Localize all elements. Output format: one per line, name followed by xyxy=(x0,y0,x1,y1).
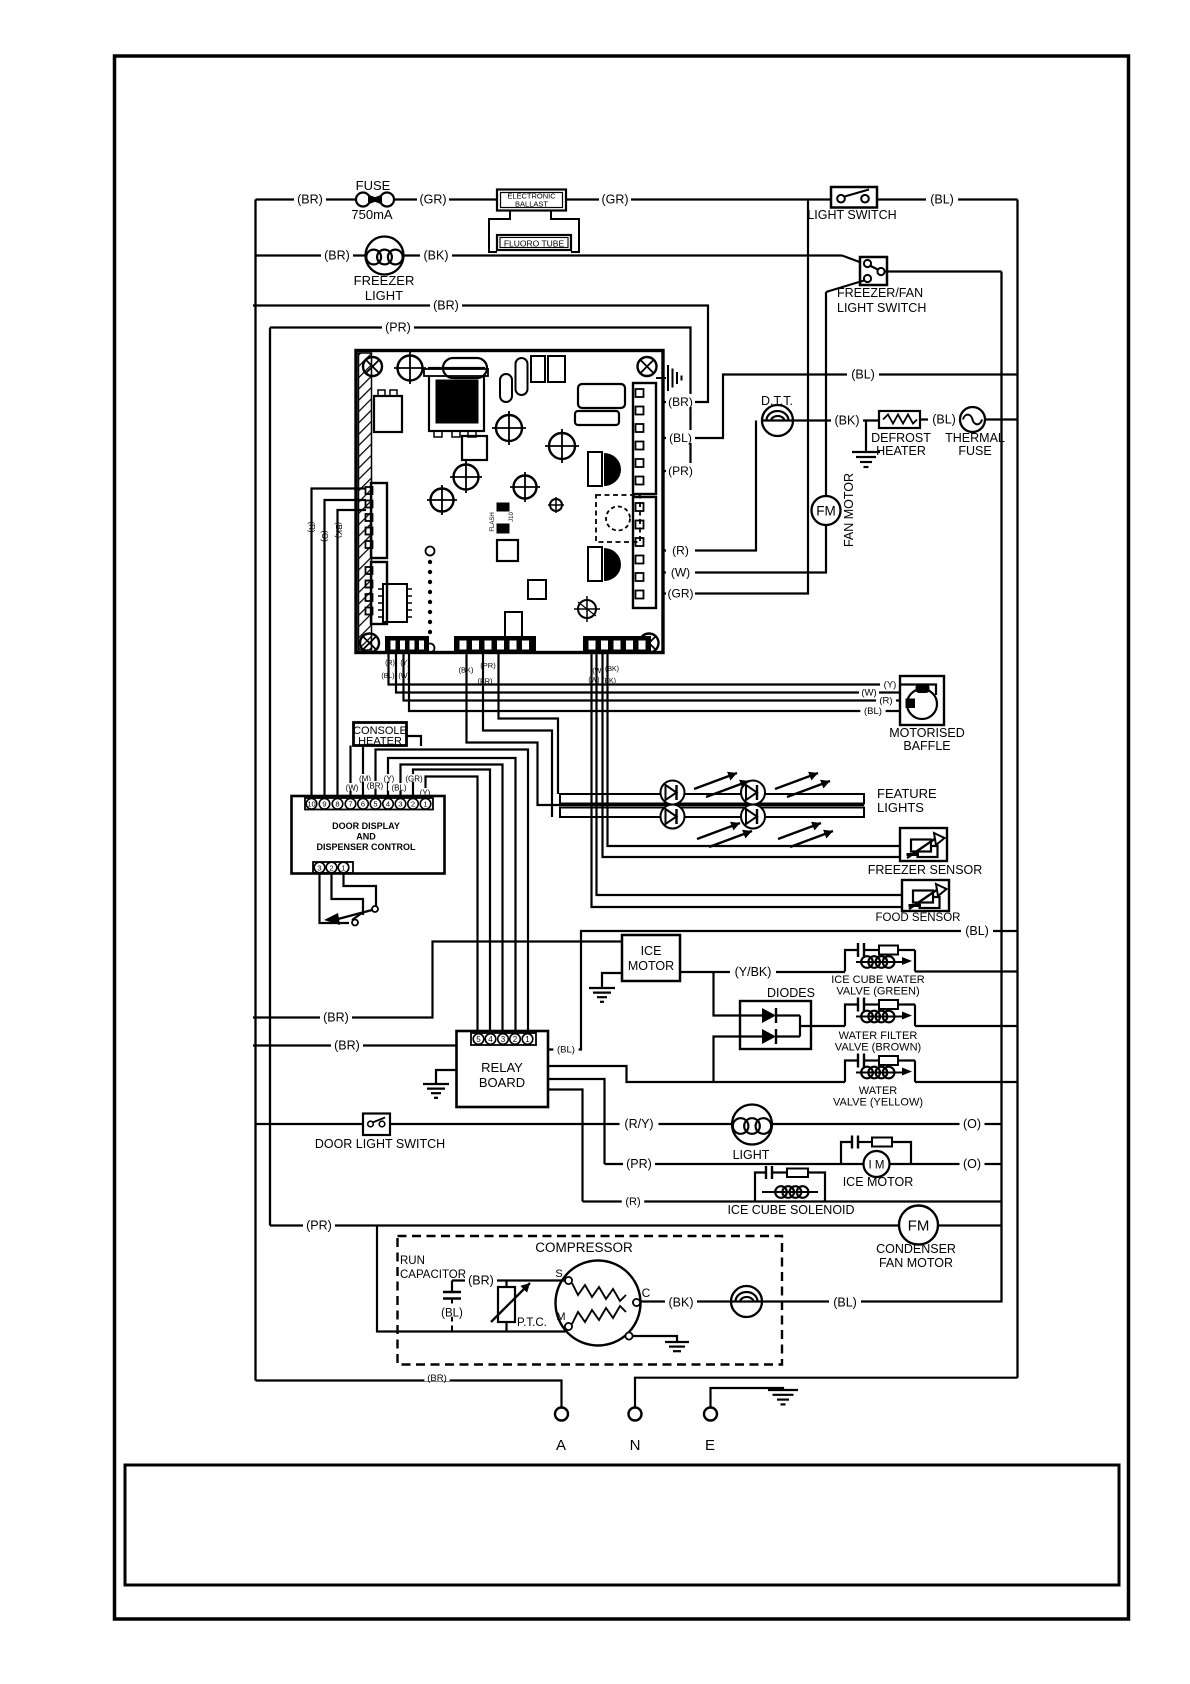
PCB right connector J1 xyxy=(633,383,656,494)
svg-text:DOOR DISPLAY: DOOR DISPLAY xyxy=(332,821,400,831)
compressor M terminal xyxy=(565,1323,572,1330)
feature light bar bottom xyxy=(560,808,864,818)
left bus wire A (BR) xyxy=(254,200,256,1381)
svg-text:(BR): (BR) xyxy=(297,193,323,207)
wire food sensor bottom xyxy=(592,653,903,907)
wire pin6 to console heater xyxy=(362,746,364,799)
svg-text:(BL): (BL) xyxy=(441,1308,463,1320)
svg-text:2: 2 xyxy=(513,1035,518,1044)
svg-text:7: 7 xyxy=(348,800,352,809)
svg-text:(BL): (BL) xyxy=(391,784,406,793)
wire pin10 (R) from PCB xyxy=(312,489,367,799)
svg-text:E: E xyxy=(705,1437,715,1454)
wire (GR) net up to top row xyxy=(663,200,808,594)
electronic ballast U-EB xyxy=(497,190,566,211)
ice cube solenoid coil xyxy=(762,1191,818,1193)
relay board xyxy=(457,1031,549,1107)
svg-text:VALVE (BROWN): VALVE (BROWN) xyxy=(835,1042,921,1054)
label (BK) xyxy=(420,248,452,260)
svg-text:(BK): (BK) xyxy=(334,522,343,538)
wire C to overload xyxy=(640,1300,731,1302)
svg-text:(W): (W) xyxy=(588,677,599,684)
compressor dashed enclosure xyxy=(398,1236,783,1365)
label (PR) pcb pin xyxy=(666,463,695,476)
wire green valve to bus xyxy=(915,970,1018,972)
svg-text:LIGHT SWITCH: LIGHT SWITCH xyxy=(807,208,896,222)
wire FM to bus 1 xyxy=(938,1224,1002,1226)
terminal N xyxy=(629,1408,642,1421)
svg-text:(BR): (BR) xyxy=(433,299,459,313)
PCB screw hole bottom-left xyxy=(360,634,379,653)
wire light to bus (O) xyxy=(772,1123,1002,1125)
svg-text:AND: AND xyxy=(356,832,376,842)
wire freezer light row y=255.5 xyxy=(256,254,366,256)
right bus wire 1 xyxy=(1000,272,1002,1303)
PCB right connector J2 xyxy=(633,497,656,608)
door display pin 9 xyxy=(319,799,330,810)
wire baffle (Y) from PCB xyxy=(389,653,901,685)
svg-text:5: 5 xyxy=(476,1035,481,1044)
labels pcb bottom connector J7 pins xyxy=(590,667,606,674)
wire baffle (W) from PCB xyxy=(396,653,900,693)
wire console heater right stub xyxy=(407,736,422,746)
wire M terminal feed xyxy=(270,1224,899,1226)
svg-text:(BR): (BR) xyxy=(468,1274,494,1288)
relay terminal 4 xyxy=(485,1034,496,1045)
door display bottom pin 2 xyxy=(326,862,337,873)
label (BL) pcb pin xyxy=(663,375,1018,439)
wire E terminal to earth xyxy=(711,1388,784,1408)
ice motor (icemaker) box xyxy=(622,935,680,981)
labels pcb bottom connector J5 pins xyxy=(382,659,398,666)
svg-text:DIODES: DIODES xyxy=(767,986,815,1000)
door display pin 2 xyxy=(408,799,419,810)
svg-text:750mA: 750mA xyxy=(351,207,393,222)
wire brown valve to bus xyxy=(915,1025,1018,1027)
wire relay output 3 to solenoid row xyxy=(548,1090,583,1202)
ice motor IM xyxy=(864,1151,890,1177)
door display and dispenser control box xyxy=(292,796,445,874)
svg-text:I M: I M xyxy=(869,1160,885,1172)
wire relay output 2 to ice motor row xyxy=(548,1079,605,1164)
wire switch to light xyxy=(390,1123,732,1125)
label (BL) mid wire xyxy=(847,367,879,379)
labels pcb bottom connector J6 pins xyxy=(456,665,477,672)
svg-text:MOTOR: MOTOR xyxy=(628,959,674,973)
svg-text:LIGHTS: LIGHTS xyxy=(877,800,924,815)
PCB jumper J10 FLASH xyxy=(497,503,509,511)
PCB transformer T1 xyxy=(429,368,484,431)
PCB relay K1 xyxy=(374,396,402,432)
wire top (BR) bus row y=199.5 xyxy=(256,198,357,200)
PCB pill component row top xyxy=(443,358,487,378)
svg-text:LIGHT: LIGHT xyxy=(365,288,403,303)
svg-text:FREEZER SENSOR: FREEZER SENSOR xyxy=(868,863,983,877)
wire door light switch row xyxy=(256,1123,364,1125)
svg-text:(PR): (PR) xyxy=(306,1219,332,1233)
svg-text:(Y/BK): (Y/BK) xyxy=(735,965,772,979)
label (BL) xyxy=(926,192,958,204)
PCB screw hole bottom-right xyxy=(640,634,659,653)
PCB bottom connector J6 xyxy=(455,637,535,653)
wire solenoid row (R) xyxy=(583,1200,1002,1202)
svg-text:(O): (O) xyxy=(320,530,329,542)
svg-text:FLASH: FLASH xyxy=(490,512,496,531)
svg-text:BOARD: BOARD xyxy=(479,1075,525,1090)
svg-text:FEATURE: FEATURE xyxy=(877,786,937,801)
svg-text:(R): (R) xyxy=(672,544,689,558)
feature LED 3 xyxy=(661,805,685,829)
PCB screw hole top-left xyxy=(363,357,382,376)
PCB dashed component xyxy=(596,495,640,542)
svg-text:VALVE (YELLOW): VALVE (YELLOW) xyxy=(833,1097,923,1109)
bottom note box xyxy=(125,1465,1119,1585)
wire pin2 (GR) to relay xyxy=(413,770,490,1034)
door display pin 5 xyxy=(370,799,381,810)
svg-text:FUSE: FUSE xyxy=(356,178,391,193)
door display pin 6 xyxy=(358,799,369,810)
PCB cap C3 plus circle xyxy=(549,433,575,459)
wire freezer sensor bottom xyxy=(603,653,901,857)
svg-text:A: A xyxy=(556,1437,566,1454)
light switch S1 xyxy=(831,187,877,208)
svg-text:(BL): (BL) xyxy=(864,706,882,717)
svg-text:THERMAL: THERMAL xyxy=(945,431,1005,445)
compressor overload protector xyxy=(731,1286,762,1317)
feature light rays xyxy=(694,773,737,789)
PCB cap C4 plus circle xyxy=(454,465,479,490)
water filter valve brown xyxy=(845,1005,858,1027)
page frame xyxy=(115,56,1129,1619)
PCB rounded module A xyxy=(578,384,625,408)
feature LED 4 xyxy=(741,805,765,829)
PCB left connector J3 xyxy=(371,483,387,558)
right bus wire 2 (BL/N) xyxy=(1016,200,1018,1378)
label (GR) xyxy=(599,192,631,204)
fuse F1 750mA xyxy=(356,193,370,207)
PCB transistor Q1 xyxy=(588,452,602,486)
terminal E xyxy=(704,1408,717,1421)
svg-text:FAN MOTOR: FAN MOTOR xyxy=(842,473,856,547)
ground earth symbol xyxy=(768,1389,798,1391)
wire relay (BL) up to bus xyxy=(548,931,1018,1050)
thermal fuse TF1 xyxy=(960,407,985,432)
fluoro tube xyxy=(497,235,571,250)
main control PCB board xyxy=(356,351,663,653)
wire capacitor to S terminal xyxy=(452,1279,565,1281)
PCB pad dot column xyxy=(426,547,435,556)
label (GR) xyxy=(417,192,449,204)
svg-text:MOTORISED: MOTORISED xyxy=(889,726,964,740)
svg-text:(GR): (GR) xyxy=(419,193,446,207)
wire pin4 (Y) to relay xyxy=(388,758,516,1033)
svg-text:(BK): (BK) xyxy=(424,249,449,263)
relay terminal 1 xyxy=(522,1034,533,1045)
wire (R) net to DTT xyxy=(663,421,756,551)
svg-text:(W): (W) xyxy=(861,688,876,699)
svg-text:COMPRESSOR: COMPRESSOR xyxy=(535,1240,633,1255)
svg-text:(R/Y): (R/Y) xyxy=(624,1117,653,1131)
door display pin 10 xyxy=(306,799,317,810)
PCB transistor Q2 xyxy=(588,547,602,581)
wire pcb to feature bottom bar xyxy=(483,653,552,817)
ground ice motor xyxy=(602,973,622,988)
svg-text:ICE MOTOR: ICE MOTOR xyxy=(843,1175,914,1189)
svg-text:D.T.T.: D.T.T. xyxy=(761,394,793,408)
wire pin1 (Y) to relay xyxy=(426,777,478,1034)
svg-text:ICE: ICE xyxy=(641,944,662,958)
svg-text:S: S xyxy=(555,1268,562,1280)
wire pcb to feature top bar xyxy=(499,653,559,794)
compressor C terminal xyxy=(633,1299,640,1306)
wire diode feed 1 xyxy=(714,972,741,1016)
svg-text:(BL): (BL) xyxy=(851,368,875,382)
wire thermal fuse to bus xyxy=(985,418,1018,420)
wire (BR) to relay board xyxy=(253,1044,457,1046)
wire freezer sensor top xyxy=(608,653,901,846)
svg-text:WATER: WATER xyxy=(859,1085,898,1097)
svg-text:FM: FM xyxy=(908,1218,930,1235)
freezer sensor xyxy=(900,828,947,861)
svg-text:4: 4 xyxy=(488,1035,493,1044)
wire (PR) to PCB y=327.5 xyxy=(270,328,691,472)
door display pin 8 xyxy=(332,799,343,810)
svg-text:1: 1 xyxy=(525,1035,530,1044)
svg-text:(BL): (BL) xyxy=(557,1045,575,1056)
svg-text:(GR): (GR) xyxy=(668,587,694,601)
dispenser paddle switch xyxy=(372,906,378,912)
compressor start winding xyxy=(572,1283,626,1301)
wire pin7 to console heater xyxy=(349,746,351,799)
compressor case ground pin xyxy=(625,1332,632,1339)
svg-text:(BL): (BL) xyxy=(669,431,692,445)
svg-text:(O): (O) xyxy=(963,1157,981,1171)
svg-text:M: M xyxy=(556,1311,565,1323)
svg-text:(BL): (BL) xyxy=(965,924,989,938)
PCB bottom connector J5 xyxy=(386,637,428,653)
svg-text:(Y): (Y) xyxy=(384,775,395,784)
svg-text:CAPACITOR: CAPACITOR xyxy=(400,1269,466,1281)
svg-text:10: 10 xyxy=(307,800,315,809)
svg-text:J10: J10 xyxy=(509,512,515,522)
svg-text:2: 2 xyxy=(411,800,415,809)
wire (W) net to fan motor xyxy=(663,292,826,573)
svg-text:BALLAST: BALLAST xyxy=(515,200,548,209)
PTC resistor xyxy=(498,1287,515,1322)
svg-text:4: 4 xyxy=(386,800,390,809)
ice cube solenoid loop xyxy=(755,1173,766,1202)
wire ballast to fluoro tube brackets xyxy=(489,211,510,253)
door display bottom pin 1 xyxy=(338,862,349,873)
svg-text:(BR): (BR) xyxy=(427,1373,447,1384)
wire ice motor row (PR) xyxy=(605,1163,864,1165)
svg-text:FUSE: FUSE xyxy=(958,444,991,458)
feature light bar top xyxy=(560,794,864,804)
svg-text:FAN MOTOR: FAN MOTOR xyxy=(879,1256,953,1270)
fridge light lamp xyxy=(732,1105,772,1145)
svg-text:DEFROST: DEFROST xyxy=(871,431,931,445)
wire ice motor to green valve (Y/BK) xyxy=(680,971,845,973)
svg-text:FLUORO TUBE: FLUORO TUBE xyxy=(504,239,565,249)
motorised baffle xyxy=(900,676,944,725)
svg-text:(O): (O) xyxy=(963,1117,981,1131)
wire food sensor top xyxy=(597,653,903,895)
door light switch S3 xyxy=(363,1114,390,1136)
svg-text:9: 9 xyxy=(322,800,326,809)
PCB cap C1 plus circle xyxy=(398,356,423,381)
ground defrost heater xyxy=(865,421,867,453)
svg-text:2: 2 xyxy=(329,863,333,872)
wire baffle (BL) from PCB xyxy=(409,653,900,711)
svg-text:(BL): (BL) xyxy=(932,413,956,427)
diodes box xyxy=(740,1001,811,1049)
svg-text:(R): (R) xyxy=(879,696,892,707)
wire (BR) to PCB y=305.5 xyxy=(253,306,708,403)
wire DTT to defrost heater xyxy=(762,419,879,421)
defrost heater R-DH xyxy=(879,411,920,428)
svg-text:(GR): (GR) xyxy=(405,775,423,784)
ice cube water valve green xyxy=(845,950,858,972)
defrost termination thermostat D.T.T. xyxy=(762,405,793,436)
svg-text:(BR): (BR) xyxy=(334,1039,360,1053)
PCB cap C2 plus circle xyxy=(496,415,522,441)
wire overload to bus (BL) xyxy=(731,1300,1002,1302)
PCB rect U6 xyxy=(528,580,546,599)
PCB left connector J4 xyxy=(371,562,387,624)
run capacitor xyxy=(451,1281,453,1293)
PCB screw hole top-right xyxy=(638,357,657,376)
svg-text:1: 1 xyxy=(423,800,427,809)
ice motor IM capacitor loop xyxy=(841,1142,852,1164)
PCB cap C6 plus circle xyxy=(514,476,537,499)
svg-text:(BL): (BL) xyxy=(833,1296,857,1310)
svg-text:5: 5 xyxy=(373,800,377,809)
svg-text:(BL): (BL) xyxy=(930,193,954,207)
relay terminal 2 xyxy=(510,1034,521,1045)
PCB bottom connector J7 xyxy=(584,637,650,653)
svg-text:(W): (W) xyxy=(671,566,690,580)
compressor run winding xyxy=(572,1306,626,1324)
svg-text:3: 3 xyxy=(398,800,402,809)
wire relay output 1 to water valve yellow xyxy=(548,1066,845,1082)
svg-text:WATER FILTER: WATER FILTER xyxy=(839,1030,918,1042)
wire dispenser switch loop xyxy=(320,873,350,923)
door display pin 7 xyxy=(345,799,356,810)
svg-text:(BR): (BR) xyxy=(668,395,693,409)
svg-text:CONDENSER: CONDENSER xyxy=(876,1242,956,1256)
svg-text:FOOD SENSOR: FOOD SENSOR xyxy=(876,912,961,924)
wire pin8 (BK) from PCB xyxy=(338,510,367,798)
terminal A xyxy=(555,1408,568,1421)
wire IM to bus (O) xyxy=(890,1163,1002,1165)
wire pcb to feature mid line xyxy=(467,653,865,805)
svg-text:DISPENSER CONTROL: DISPENSER CONTROL xyxy=(316,842,416,852)
relay terminal 5 xyxy=(473,1034,484,1045)
PCB rect U5 xyxy=(505,612,522,638)
svg-text:LIGHT: LIGHT xyxy=(733,1148,770,1162)
feature LED 1 xyxy=(661,781,685,805)
svg-text:(W): (W) xyxy=(346,784,359,793)
wire pin3 (BL) to relay xyxy=(401,765,503,1034)
svg-text:3: 3 xyxy=(317,863,321,872)
svg-text:RUN: RUN xyxy=(400,1255,425,1267)
wire diode feed 2 xyxy=(714,1037,741,1083)
svg-text:(BR): (BR) xyxy=(323,1011,349,1025)
svg-text:HEATER: HEATER xyxy=(876,444,926,458)
svg-text:(R): (R) xyxy=(385,660,395,667)
svg-text:BAFFLE: BAFFLE xyxy=(903,739,950,753)
door display pin 4 xyxy=(383,799,394,810)
freezer/fan light switch S2 xyxy=(860,257,887,285)
PCB ground stub top right xyxy=(656,377,666,379)
svg-text:3: 3 xyxy=(501,1035,506,1044)
PCB square U4 xyxy=(497,540,518,561)
ground relay board xyxy=(436,1070,457,1084)
door display pin 3 xyxy=(395,799,406,810)
compressor motor circle xyxy=(556,1261,641,1346)
label (BR) xyxy=(321,248,353,260)
wire switch right pin to bus-1 xyxy=(885,270,1002,272)
svg-text:1: 1 xyxy=(341,863,345,872)
evaporator fan motor FM xyxy=(812,496,841,525)
svg-text:RELAY: RELAY xyxy=(481,1060,523,1075)
svg-text:(BK): (BK) xyxy=(669,1296,694,1310)
PCB IC U2 xyxy=(383,584,407,622)
svg-text:C: C xyxy=(642,1286,651,1300)
svg-text:FM: FM xyxy=(816,504,836,519)
svg-text:8: 8 xyxy=(335,800,339,809)
wire switch bottom pin slant down to fan motor line xyxy=(826,281,864,293)
condenser fan motor FM xyxy=(899,1206,938,1245)
svg-text:(PR): (PR) xyxy=(626,1157,652,1171)
PCB square U3 xyxy=(462,436,487,460)
relay terminal 3 xyxy=(498,1034,509,1045)
svg-text:HEATER: HEATER xyxy=(358,736,402,748)
wire N terminal to bus2 xyxy=(635,1378,1018,1408)
freezer light lamp xyxy=(366,237,404,275)
svg-text:(BR): (BR) xyxy=(367,782,384,791)
console heater xyxy=(354,723,407,746)
svg-text:DOOR LIGHT SWITCH: DOOR LIGHT SWITCH xyxy=(315,1137,445,1151)
svg-text:6: 6 xyxy=(361,800,365,809)
PCB rounded module B xyxy=(575,411,619,425)
feature LED 2 xyxy=(741,781,765,805)
wire slant into freezer/fan switch xyxy=(842,256,861,263)
compressor S terminal xyxy=(565,1277,572,1284)
food sensor xyxy=(902,880,949,911)
svg-text:ICE CUBE WATER: ICE CUBE WATER xyxy=(831,974,925,986)
svg-text:(PR): (PR) xyxy=(668,464,693,478)
svg-text:N: N xyxy=(630,1437,641,1454)
svg-text:(GR): (GR) xyxy=(601,193,628,207)
PCB small cap c8 dashed target xyxy=(578,600,596,618)
wire pin9 (O) from PCB xyxy=(325,500,367,798)
wire baffle (R) from PCB xyxy=(404,653,901,701)
wire diode output to brown valve xyxy=(799,1016,801,1037)
door display bottom connector xyxy=(313,862,353,873)
label (BR) pcb pin xyxy=(666,394,695,407)
PCB small cap c7 xyxy=(550,499,562,511)
wire (BR) ice motor feed xyxy=(253,942,622,1018)
diode D1 xyxy=(740,1014,762,1016)
water valve yellow xyxy=(845,1061,858,1083)
PCB cap C5 plus circle xyxy=(431,489,454,512)
svg-text:VALVE (GREEN): VALVE (GREEN) xyxy=(836,986,919,998)
left bus wire B (PR) xyxy=(269,328,271,1226)
diode D2 xyxy=(740,1035,762,1037)
svg-text:(PR): (PR) xyxy=(385,321,411,335)
wire (BR) to A terminal xyxy=(256,1381,562,1408)
